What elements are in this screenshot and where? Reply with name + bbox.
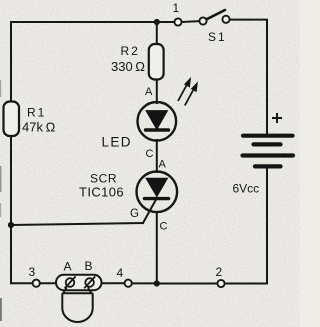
terminal 1: [174, 18, 181, 25]
svg-text:330 Ω: 330 Ω: [111, 59, 145, 74]
SCR cathode bar: [145, 197, 169, 200]
battery plate short bottom: [255, 164, 281, 168]
battery plate long: [243, 153, 294, 157]
svg-text:B: B: [85, 259, 93, 273]
LED light arrow 1: [178, 78, 191, 101]
SCR triangle anode: [146, 178, 168, 196]
wire gate horizontal from left rail: [11, 223, 143, 225]
screw terminal B slash: [84, 276, 95, 288]
wire right side down to battery +: [266, 20, 268, 134]
svg-text:LED: LED: [102, 135, 132, 150]
plug dome loop: [62, 293, 92, 322]
wire SCR cathode down to bottom junction: [156, 212, 158, 284]
screw terminal B: [85, 278, 94, 287]
wire center vertical R2 to LED: [156, 22, 158, 103]
svg-text:SCR: SCR: [90, 172, 117, 186]
svg-text:C: C: [160, 221, 168, 233]
LED cathode bar: [146, 128, 169, 131]
battery plate long top: [243, 134, 293, 138]
switch S1 left contact: [199, 17, 206, 24]
resistor R2 body: [149, 44, 164, 80]
svg-text:A: A: [159, 159, 167, 171]
svg-text:TIC106: TIC106: [79, 185, 124, 200]
plug pill body: [56, 275, 102, 290]
svg-text:A: A: [64, 260, 72, 274]
wire pill to terminal 3: [40, 282, 57, 284]
wire segment between terminal 1 and switch: [182, 20, 199, 23]
screw terminal A slash: [65, 276, 76, 288]
svg-text:3: 3: [29, 265, 36, 279]
scan edge artifact marks: [0, 80, 1, 97]
wire switch to top-right corner: [230, 19, 267, 21]
switch S1 blade: [207, 10, 226, 19]
wire LED cathode to SCR anode: [156, 140, 158, 172]
svg-text:R2: R2: [121, 44, 140, 58]
wire junction to terminal 4: [132, 282, 157, 284]
resistor R1 body: [4, 102, 20, 137]
terminal 3: [33, 280, 40, 287]
SCR circle: [137, 172, 178, 213]
wire top-left horizontal: [11, 21, 174, 23]
svg-text:1: 1: [173, 1, 180, 15]
svg-text:S1: S1: [208, 30, 227, 44]
svg-text:G: G: [130, 208, 139, 220]
svg-text:4: 4: [117, 266, 124, 280]
junction node gate on left rail: [8, 222, 14, 228]
svg-text:6Vcc: 6Vcc: [233, 182, 260, 196]
svg-text:A: A: [145, 86, 153, 98]
wire gate diagonal into SCR: [143, 200, 156, 224]
terminal 2: [217, 280, 224, 287]
svg-text:2: 2: [216, 265, 223, 279]
LED triangle anode: [146, 111, 168, 130]
plug cord lead left: [63, 287, 67, 293]
wire bottom right to terminal 2: [225, 283, 267, 285]
screw terminal A: [66, 278, 75, 287]
plug cord lead right: [88, 287, 92, 293]
wire left side vertical: [10, 22, 12, 283]
wire terminal 2 to center junction: [157, 283, 217, 285]
svg-text:47k Ω: 47k Ω: [22, 120, 56, 135]
LED circle: [138, 102, 177, 141]
svg-text:C: C: [146, 148, 154, 160]
wire battery - down to bottom-right corner: [266, 169, 268, 284]
junction node top (R2 tap): [154, 19, 160, 25]
wire terminal 4 to plug pill: [101, 282, 124, 284]
svg-text:R1: R1: [27, 106, 46, 120]
wire terminal 3 to bottom-left corner: [11, 282, 32, 284]
label + battery: [272, 113, 282, 123]
junction node bottom (SCR cathode): [154, 280, 160, 286]
battery plate short: [254, 142, 281, 146]
LED light arrow 2: [185, 83, 198, 106]
switch S1 right contact: [222, 16, 229, 23]
terminal 4: [125, 280, 132, 287]
